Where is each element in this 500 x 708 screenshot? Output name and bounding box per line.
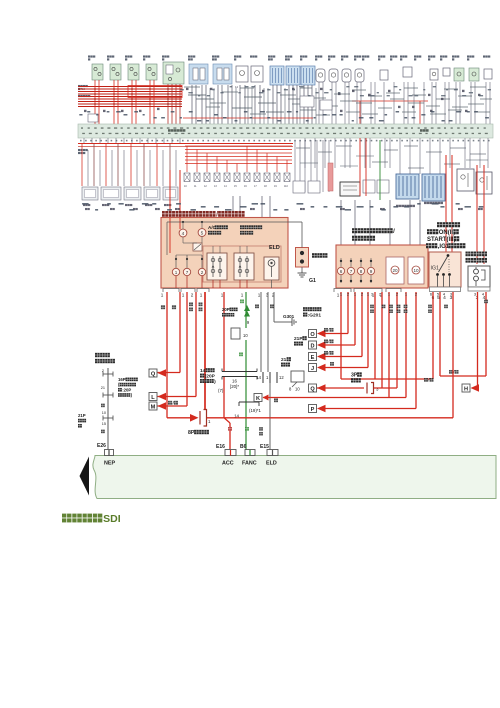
band tick labels [81, 127, 488, 134]
svg-text:20P: 20P [222, 307, 230, 312]
wire bus [78, 88, 182, 90]
wire color label [412, 106, 415, 108]
label green [240, 299, 244, 303]
wire [280, 85, 282, 124]
svg-text:3P: 3P [351, 373, 358, 379]
component label [188, 55, 195, 57]
component label [328, 55, 335, 57]
wire [195, 85, 197, 124]
fuse 9 [367, 258, 374, 283]
small component [443, 68, 450, 76]
wire [370, 82, 372, 124]
wire jog [470, 153, 486, 155]
wire [325, 367, 368, 369]
component label [285, 55, 292, 57]
blue component 2 [213, 64, 232, 84]
terminal E [309, 353, 317, 361]
ground G1 [298, 271, 307, 277]
wire [292, 382, 297, 387]
wire [356, 82, 358, 124]
svg-text:J: J [311, 366, 314, 372]
svg-text:21: 21 [101, 386, 105, 390]
connector tab [197, 289, 209, 293]
wire [153, 80, 155, 124]
wire jog [318, 151, 332, 153]
wire [231, 85, 233, 124]
wire stub [107, 138, 109, 144]
wire jog [356, 155, 374, 157]
21 connector label [281, 357, 291, 363]
svg-text:1: 1 [405, 292, 408, 297]
cylindrical sensor 3 [342, 69, 351, 82]
svg-text::G201: :G201 [308, 312, 322, 318]
3P connector label [351, 372, 362, 378]
ECM module bar [93, 456, 496, 499]
svg-text:1: 1 [388, 292, 391, 297]
label white [382, 305, 386, 309]
wire jog [312, 97, 326, 99]
label [478, 208, 483, 210]
wire [439, 138, 441, 174]
wire jog [316, 114, 330, 116]
wire color label [157, 108, 160, 110]
wire [256, 150, 258, 173]
wire [328, 140, 330, 192]
wire [223, 377, 225, 418]
wire jog [402, 111, 416, 113]
diagnostic box [340, 182, 360, 196]
wire to fuse box [389, 200, 391, 245]
component label [300, 55, 307, 57]
left margin label [78, 95, 90, 97]
wire jog [184, 86, 200, 88]
svg-text:G1: G1 [309, 278, 316, 284]
wire to fuse box [354, 200, 356, 245]
wire color label [235, 85, 239, 89]
svg-text:9: 9 [370, 269, 373, 274]
small box [377, 180, 389, 193]
battery [296, 248, 309, 268]
wire color label [292, 88, 295, 90]
wire to ignition switch [445, 155, 447, 252]
component label [452, 55, 459, 57]
svg-text:P: P [311, 407, 315, 413]
wire [201, 237, 203, 244]
component label [107, 55, 114, 57]
connector strip band [78, 124, 493, 138]
label [380, 208, 385, 210]
wire jog [322, 105, 338, 107]
wire white/red to L [195, 292, 197, 397]
wire jog [300, 162, 318, 164]
wire jog [384, 149, 398, 151]
svg-text:20: 20 [392, 268, 398, 273]
wire jog [480, 98, 492, 100]
component label [250, 55, 257, 57]
small box [363, 180, 375, 193]
wire [288, 221, 302, 223]
wire [94, 80, 96, 124]
fuse symbol 1 [184, 173, 190, 182]
svg-text:10: 10 [295, 387, 300, 392]
component label [88, 55, 95, 57]
fuse 7 [183, 255, 190, 276]
wire [344, 82, 346, 124]
wire [158, 372, 181, 374]
fuse symbol 6 [234, 173, 240, 182]
component label [390, 55, 397, 57]
svg-text:21P: 21P [294, 336, 303, 342]
relay unit 1 [207, 253, 227, 280]
wire [340, 292, 342, 379]
wire jog [340, 165, 358, 167]
svg-text:START(III): START(III) [427, 237, 456, 243]
pink cable marker [328, 163, 333, 191]
wire [469, 138, 471, 168]
terminal E26 [105, 450, 114, 456]
wire jog [372, 161, 388, 163]
wire jog [258, 102, 276, 104]
wire jog [206, 106, 220, 108]
wire [399, 138, 401, 174]
wire from ignition pin 3 [452, 292, 454, 418]
wire color label [428, 94, 431, 96]
component label [440, 55, 447, 57]
svg-text:IG1: IG1 [431, 266, 439, 272]
wire [81, 144, 83, 187]
wire [314, 138, 316, 168]
wire [299, 88, 301, 124]
battery positive wire [301, 222, 303, 248]
white component 1 [236, 66, 248, 82]
svg-text:ELD: ELD [269, 245, 280, 251]
wire [162, 150, 164, 186]
wire to ignition switch [451, 155, 453, 252]
wire [374, 82, 376, 124]
wire stub [246, 280, 248, 288]
fuse symbol 3 [204, 173, 210, 182]
svg-text:5: 5 [201, 231, 204, 237]
wire jog [300, 109, 316, 111]
label green [245, 427, 249, 431]
terminal K [254, 394, 262, 402]
wire stub [99, 138, 101, 144]
svg-text:1: 1 [208, 419, 211, 424]
wire [383, 82, 385, 124]
dash fuse/relay box [336, 245, 428, 288]
svg-text:12: 12 [279, 375, 284, 380]
wire [331, 82, 333, 124]
label yellow [255, 304, 259, 308]
blue connector block 1 [396, 174, 419, 199]
svg-text:Q: Q [310, 386, 315, 392]
fuse 20 [386, 257, 404, 284]
wire jog [378, 107, 392, 109]
svg-text:11: 11 [194, 185, 197, 188]
wire [179, 84, 181, 124]
fuse symbol 8 [254, 173, 260, 182]
wire jog [340, 100, 356, 102]
small component [403, 67, 412, 77]
wire to P [324, 408, 416, 410]
label white [161, 305, 165, 309]
svg-text:7: 7 [186, 270, 189, 275]
wire color label [462, 90, 465, 92]
wire color label [320, 88, 323, 90]
band label [168, 129, 185, 132]
wire bus [185, 159, 292, 161]
fuse symbol 2 [194, 173, 200, 182]
svg-text:17: 17 [254, 185, 257, 188]
wire [344, 138, 346, 168]
16P connector label [118, 377, 138, 382]
door switch component 1 [92, 64, 103, 80]
svg-text:/: / [393, 229, 395, 235]
connector pair [103, 393, 113, 398]
wire bus [78, 86, 182, 88]
wire [292, 85, 294, 124]
dash fuse box title [352, 228, 395, 235]
terminal M [149, 402, 157, 410]
wire [334, 138, 336, 168]
wire [266, 153, 268, 172]
wire [201, 85, 203, 124]
wire from relay pin 4 [485, 292, 487, 376]
wire bus [78, 93, 182, 95]
battery ground wire [301, 267, 303, 271]
label white/green [168, 401, 178, 406]
wire bus [78, 91, 182, 93]
svg-text:L: L [151, 395, 155, 401]
yellow wire [260, 292, 262, 372]
wire jog [458, 95, 472, 97]
svg-text:12: 12 [204, 185, 207, 188]
14P connector [222, 369, 257, 380]
label black/yellow [428, 305, 432, 313]
wire bus [78, 96, 182, 98]
wire [316, 140, 318, 192]
terminal D [309, 341, 317, 349]
arrow [317, 353, 326, 361]
arrow to Q [158, 369, 167, 377]
wire [169, 218, 171, 253]
wire [117, 144, 119, 187]
svg-text:6: 6 [340, 269, 343, 274]
wire jog [266, 111, 284, 113]
arrow to L [158, 393, 167, 401]
wire jog [452, 106, 468, 108]
svg-text:8: 8 [289, 387, 292, 392]
wire [212, 246, 214, 253]
ignition switch IG1 [429, 252, 461, 287]
wire [186, 146, 188, 172]
component label [414, 55, 421, 57]
20P plug connector label [222, 307, 238, 312]
pin number row [80, 140, 490, 142]
wire yellow/black [341, 378, 433, 380]
wire [235, 88, 237, 124]
door switch component 4 [146, 64, 157, 80]
wire stub [212, 280, 214, 288]
wire [216, 157, 218, 173]
wire jog [196, 98, 214, 100]
wire [166, 222, 168, 255]
wire id labels [180, 86, 491, 96]
white component 2 [251, 66, 263, 82]
svg-text:FANC: FANC [242, 461, 257, 467]
svg-text:7: 7 [350, 269, 353, 274]
component label [234, 55, 241, 57]
wire [364, 138, 366, 168]
wire stub [83, 138, 85, 144]
wire [284, 88, 286, 124]
wire [365, 138, 367, 196]
wire to starter relay [483, 165, 485, 264]
arrow [317, 341, 326, 349]
svg-text:E15: E15 [260, 444, 269, 450]
wire [474, 82, 476, 124]
green relay component 1 [454, 68, 464, 81]
wire jog [356, 102, 372, 104]
wire jog [368, 95, 382, 97]
svg-text:2: 2 [396, 292, 399, 297]
junction [182, 221, 184, 223]
relay box right [476, 172, 492, 194]
wire stub [123, 138, 125, 144]
wire [213, 88, 215, 124]
wire from relay pin 3 [477, 292, 479, 388]
door switch component 3 [128, 64, 139, 80]
wire [335, 82, 337, 124]
wire jog [240, 87, 254, 89]
svg-text:,IG1: ,IG1 [438, 244, 450, 250]
label [300, 208, 305, 210]
arrow [317, 384, 326, 392]
band label [420, 129, 429, 132]
wire jog [430, 113, 446, 115]
fuse symbol 4 [214, 173, 220, 182]
wire jog [250, 113, 266, 115]
wire color label [465, 110, 468, 112]
wire bus [78, 143, 293, 145]
svg-text:3: 3 [376, 387, 379, 392]
wire [182, 237, 184, 243]
wire [325, 356, 362, 358]
wire [135, 80, 137, 124]
tachometer test connector label [95, 353, 110, 357]
wire [149, 150, 151, 186]
wire [479, 138, 481, 168]
wire color label [352, 90, 355, 92]
label white [444, 305, 448, 309]
wire black/yellow to 8P connector [204, 292, 206, 410]
wire [276, 157, 278, 173]
label [110, 208, 115, 210]
svg-text:E16: E16 [216, 444, 225, 450]
cylindrical sensor 1 [316, 69, 325, 82]
wire stub [271, 280, 273, 288]
green wire to B6 [245, 340, 247, 450]
wire [487, 138, 489, 168]
wire stub [171, 138, 173, 144]
terminal H [462, 384, 470, 392]
component label [483, 55, 490, 57]
wire stub [201, 276, 203, 288]
lower schematic section [78, 138, 492, 264]
wire jog [336, 145, 352, 147]
wire color label [210, 88, 213, 90]
wire [303, 85, 305, 124]
connector pair [103, 372, 113, 377]
actuator component 3 [124, 187, 141, 200]
lower wiring section [78, 292, 488, 450]
wire jog [232, 107, 252, 109]
wire [448, 82, 450, 124]
svg-text:10: 10 [102, 411, 106, 415]
svg-text:E26: E26 [97, 443, 106, 449]
wire [158, 405, 188, 407]
wire [117, 80, 119, 124]
terminal J [309, 364, 317, 372]
wire [143, 144, 145, 187]
wire color label [441, 98, 444, 100]
wire [175, 84, 177, 124]
fuse 5 [198, 229, 206, 237]
component label [145, 204, 152, 206]
connector pair [103, 416, 113, 421]
svg-text:M: M [151, 404, 156, 410]
wire jog [408, 102, 424, 104]
small connector box [291, 371, 304, 382]
svg-text:2: 2 [201, 270, 204, 275]
svg-text:): ) [214, 379, 216, 385]
wire [276, 85, 278, 124]
wire bus [185, 163, 292, 165]
wire [175, 150, 177, 186]
wire to fuse box [369, 200, 371, 245]
component label [467, 55, 474, 57]
wire [167, 84, 169, 124]
terminal E16 [225, 450, 236, 456]
green/red wire to E15 [269, 383, 271, 450]
21P connector label [294, 336, 307, 342]
svg-text:13: 13 [214, 185, 217, 188]
blue connector block 2 [422, 174, 445, 201]
wire stub [131, 138, 133, 144]
connector label [424, 202, 443, 204]
wire stub [147, 138, 149, 144]
wire stub [115, 138, 117, 144]
wire [455, 82, 457, 124]
wire [359, 138, 361, 196]
wire color label [388, 90, 391, 92]
RHD note [303, 307, 321, 311]
wire color label [103, 110, 106, 112]
wire stub [179, 138, 181, 144]
arrow to K [263, 395, 269, 401]
component name labels [82, 203, 483, 211]
svg-text:9: 9 [247, 320, 250, 325]
component label [125, 55, 132, 57]
arrow to M [158, 402, 167, 410]
svg-text:1: 1 [367, 292, 370, 297]
actuator component 1 [82, 187, 98, 200]
wire jog [404, 145, 418, 147]
label yellow/black [389, 305, 393, 313]
wire jog [300, 87, 312, 89]
wire [393, 82, 395, 124]
wire id labels [79, 111, 489, 122]
